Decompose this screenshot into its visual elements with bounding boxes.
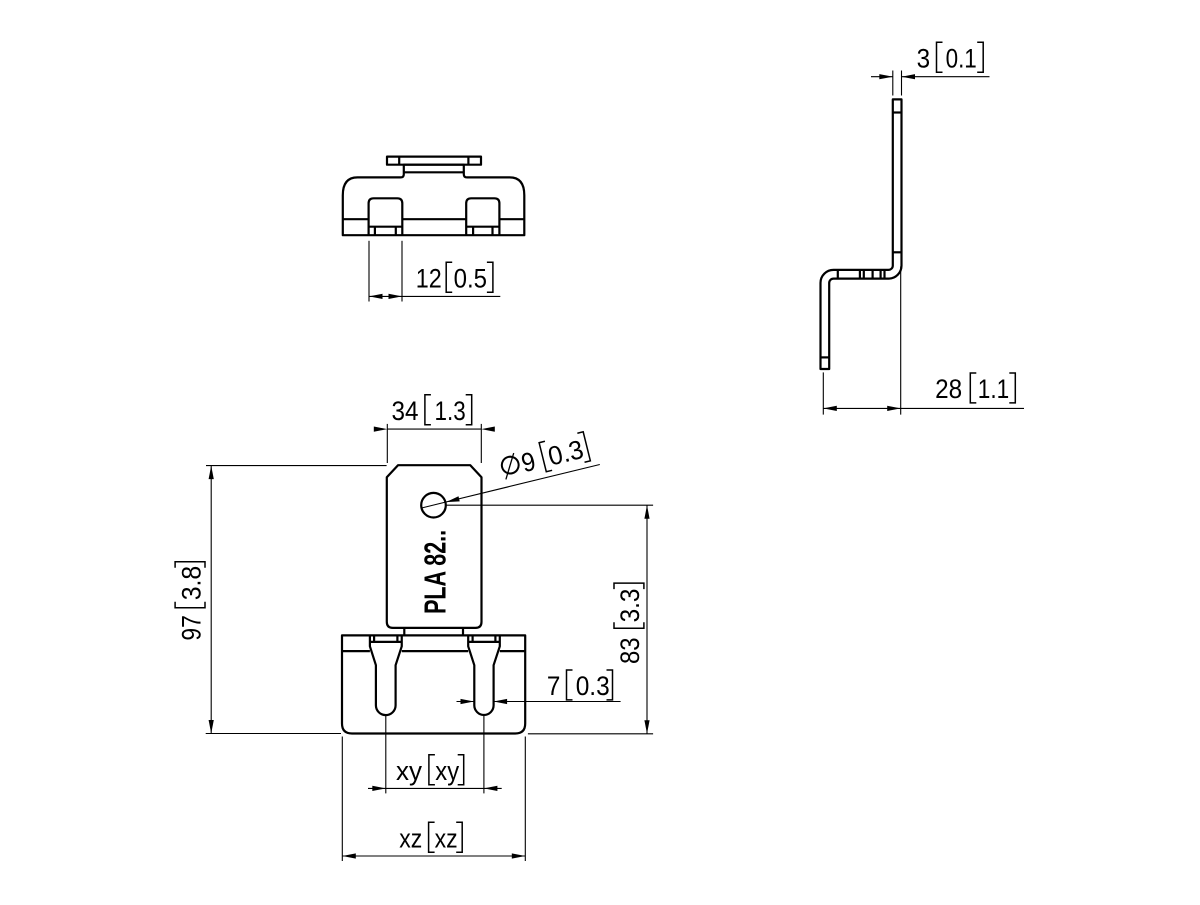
- svg-text:28: 28: [935, 374, 962, 404]
- svg-text:0.5: 0.5: [454, 264, 487, 294]
- svg-text:3.3: 3.3: [615, 589, 645, 623]
- svg-text:7: 7: [547, 671, 561, 701]
- svg-text:xy: xy: [396, 756, 423, 786]
- svg-text:xz: xz: [399, 824, 422, 854]
- svg-text:34: 34: [392, 396, 419, 426]
- svg-text:97: 97: [176, 615, 206, 641]
- svg-text:0.1: 0.1: [946, 44, 977, 74]
- svg-text:0.3: 0.3: [576, 671, 610, 701]
- svg-text:12: 12: [416, 264, 442, 294]
- svg-text:1.3: 1.3: [435, 396, 466, 426]
- svg-text:PLA 82..: PLA 82..: [418, 530, 453, 614]
- svg-text:3: 3: [917, 44, 931, 74]
- svg-text:xy: xy: [435, 756, 459, 786]
- svg-text:xz: xz: [435, 824, 458, 854]
- svg-text:3.8: 3.8: [176, 566, 206, 601]
- svg-text:83: 83: [615, 637, 645, 664]
- svg-text:1.1: 1.1: [978, 374, 1009, 404]
